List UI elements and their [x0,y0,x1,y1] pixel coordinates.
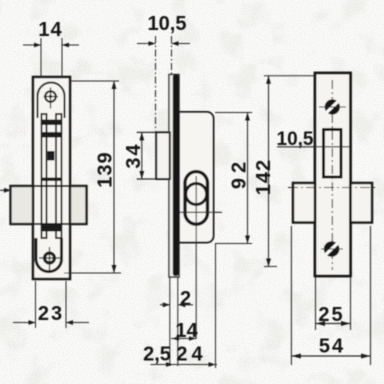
rear slot [324,130,342,178]
rear left flange [293,183,315,223]
small latch square [48,151,55,161]
dimension 23 [35,281,37,328]
channel rung bottom [42,225,61,232]
rear right flange [351,183,373,223]
svg-text:142: 142 [253,159,275,195]
svg-text:24: 24 [176,344,206,366]
channel rung 3 [42,178,61,182]
dimension 25 [315,277,317,330]
strip lower extension lines [169,277,171,366]
cylinder centerline [195,176,197,339]
cylinder oval [185,172,208,225]
svg-text:10,5: 10,5 [148,13,187,35]
left case protrusion right part [70,186,87,224]
top screw [45,91,56,102]
left faceplate outline [33,77,70,279]
case top edge across plate [33,185,70,187]
inner channel right bar [56,114,62,238]
svg-text:23: 23 [38,303,64,325]
dimension 54 [290,226,292,365]
dimension 142 [264,75,315,77]
rear plate [315,73,351,276]
case centerline tick with arrow [0,189,9,191]
svg-text:92: 92 [229,157,251,189]
horizontal centerline [288,187,377,189]
svg-text:14: 14 [38,19,62,41]
bottom inner arch [36,238,62,272]
dimension 34 [137,131,157,133]
dimension 92 [215,112,252,114]
34 block [156,132,170,179]
case right extension line [215,244,217,368]
cylinder chord line [180,211,222,213]
faceplate dark edge [173,75,179,277]
left case protrusion left part [11,186,34,224]
svg-text:139: 139 [95,151,117,187]
svg-text:2,5: 2,5 [143,344,171,366]
svg-text:54: 54 [319,336,345,358]
inner channel left bar [42,114,47,238]
bottom screw [321,241,343,257]
top inner arch [38,83,65,118]
cylinder circle [186,184,207,205]
faceplate strip [169,75,179,278]
bottom screw [45,253,55,263]
dimension 139 [70,80,119,82]
svg-text:25: 25 [318,304,344,326]
channel rung 2 [42,132,62,138]
svg-text:2: 2 [180,288,191,310]
case bottom edge across plate [33,223,70,225]
vertical centerline [331,80,333,270]
lock case side view [179,112,214,243]
svg-text:34: 34 [123,142,145,168]
channel rung top [42,120,62,126]
top screw [319,99,346,114]
